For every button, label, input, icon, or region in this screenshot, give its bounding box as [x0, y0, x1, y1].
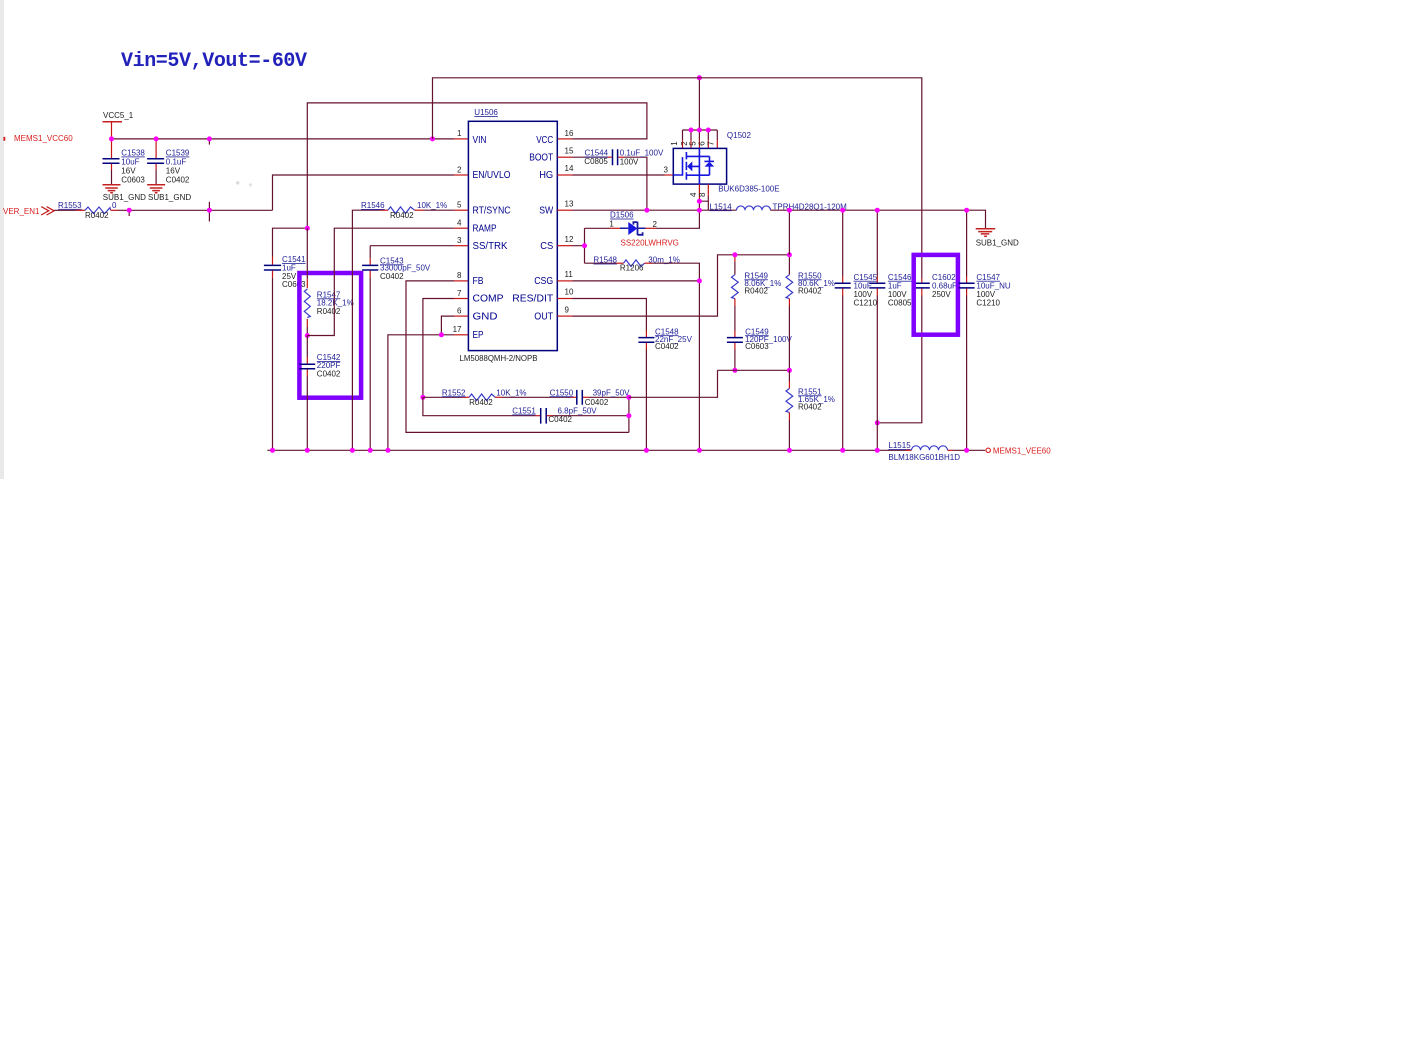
- junction C1545 top: [840, 208, 845, 213]
- pin 13 SW: [539, 199, 574, 216]
- junction SW/Q1502/D1506: [697, 208, 702, 213]
- inductor L1514: [709, 202, 847, 211]
- resistor R1549: [732, 255, 782, 331]
- pin 7 COMP: [457, 289, 503, 305]
- svg-text:R0402: R0402: [798, 287, 822, 296]
- junction bus C1547: [964, 448, 969, 453]
- svg-text:15: 15: [565, 147, 574, 156]
- capacitor C1542: [299, 336, 341, 451]
- power symbol VCC5_1: [103, 111, 134, 139]
- wire FB to divider: [629, 370, 718, 397]
- svg-text:C1210: C1210: [976, 298, 1000, 307]
- junction RAMP node: [305, 333, 310, 338]
- svg-text:VCC: VCC: [536, 134, 553, 146]
- svg-text:1: 1: [670, 141, 679, 146]
- wire HG pin14 to gate: [557, 166, 673, 176]
- pin 2 EN/UVLO: [457, 165, 510, 181]
- svg-text:MEMS1_VEE60: MEMS1_VEE60: [993, 447, 1051, 456]
- svg-text:R1548: R1548: [593, 256, 617, 265]
- op-amp U1506 LM5088 controller body: [460, 108, 558, 363]
- pin 15 BOOT: [529, 147, 574, 164]
- svg-text:13: 13: [565, 199, 574, 208]
- wire C1541 branch: [273, 228, 308, 256]
- svg-text:16V: 16V: [166, 167, 181, 176]
- capacitor C1543: [362, 246, 468, 451]
- svg-text:C0603: C0603: [745, 342, 769, 351]
- wire RAMP pin4: [307, 228, 468, 335]
- junction bus CSG: [697, 448, 702, 453]
- svg-text:8: 8: [698, 192, 707, 197]
- svg-text:10: 10: [565, 288, 574, 297]
- svg-text:EP: EP: [473, 329, 484, 341]
- junction C1546 tap: [875, 420, 880, 425]
- svg-text:0.1uF: 0.1uF: [166, 158, 187, 167]
- junction bus R1551: [787, 448, 792, 453]
- diode D1506: [585, 210, 700, 247]
- left window edge strip: [0, 0, 4, 479]
- junction VER_EN1 tick: [207, 208, 212, 213]
- wire EP pin17: [388, 335, 469, 451]
- wire stub tick on VIN bus: [208, 139, 210, 145]
- resistor R1551: [786, 370, 835, 450]
- svg-text:R1546: R1546: [361, 201, 385, 210]
- wire CSG pin11: [557, 280, 699, 282]
- svg-text:1: 1: [609, 220, 614, 229]
- pin 17 EP: [453, 325, 484, 341]
- junction bus C1548: [644, 448, 649, 453]
- capacitor C1547: [959, 210, 1011, 450]
- junction VIN bus tick: [207, 136, 212, 141]
- pin 3 SS/TRK: [457, 236, 507, 252]
- pin 9 OUT: [534, 305, 569, 322]
- svg-text:SUB1_GND: SUB1_GND: [103, 193, 146, 202]
- capacitor C1539: [147, 139, 190, 185]
- wire SW rail: [557, 209, 736, 211]
- svg-text:30m_1%: 30m_1%: [648, 256, 680, 265]
- junction Q1502 drain top: [697, 75, 702, 80]
- svg-text:RES/DIT: RES/DIT: [512, 293, 554, 305]
- svg-text:C0603: C0603: [282, 280, 306, 289]
- junction bus C1543: [368, 448, 373, 453]
- junction C1546 top: [875, 208, 880, 213]
- capacitor C1548: [557, 299, 692, 451]
- svg-text:CSG: CSG: [534, 275, 553, 287]
- off-page connector MEMS1_VEE60: [986, 447, 1051, 456]
- junction drain bracket pins: [689, 128, 694, 133]
- junction C1549 bottom: [732, 368, 737, 373]
- svg-text:OUT: OUT: [534, 310, 553, 322]
- svg-text:C0805: C0805: [888, 298, 912, 307]
- junction FB node upper: [626, 395, 631, 400]
- svg-text:C0402: C0402: [655, 342, 679, 351]
- capacitor C1551: [423, 397, 629, 432]
- svg-text:SW: SW: [539, 204, 553, 216]
- transistor Q1502: [670, 78, 780, 210]
- svg-text:6: 6: [698, 141, 707, 146]
- pin 1 VIN: [457, 129, 486, 146]
- junction C1547 top: [964, 208, 969, 213]
- svg-text:R1206: R1206: [620, 263, 644, 272]
- resistor R1548: [585, 256, 700, 451]
- svg-text:4: 4: [457, 219, 462, 228]
- wire VER_EN1 net: [118, 209, 273, 211]
- svg-text:BUK6D385-100E: BUK6D385-100E: [718, 184, 779, 193]
- pin 14 HG: [539, 164, 574, 181]
- svg-text:SUB1_GND: SUB1_GND: [148, 193, 191, 202]
- svg-text:4: 4: [689, 192, 698, 197]
- svg-text:BOOT: BOOT: [529, 152, 553, 164]
- junction bus C1546: [875, 448, 880, 453]
- svg-text:LM5088QMH-2/NOPB: LM5088QMH-2/NOPB: [460, 354, 538, 363]
- svg-text:SUB1_GND: SUB1_GND: [976, 238, 1019, 247]
- capacitor C1541: [264, 255, 306, 450]
- junction source pins: [697, 199, 702, 204]
- svg-text:R0402: R0402: [85, 211, 109, 220]
- svg-text:100V: 100V: [620, 158, 639, 167]
- svg-text:EN/UVLO: EN/UVLO: [473, 169, 511, 181]
- svg-text:R0402: R0402: [469, 398, 493, 407]
- svg-text:L1515: L1515: [888, 441, 911, 450]
- highlight box C1602: [914, 255, 958, 335]
- junction VIN bus at C1539: [154, 136, 159, 141]
- wire GND pin6 riser: [441, 316, 468, 335]
- svg-text:VCC5_1: VCC5_1: [103, 111, 134, 120]
- svg-text:16V: 16V: [121, 167, 136, 176]
- off-page connector VER_EN1: [3, 207, 54, 217]
- svg-text:BLM18KG601BH1D: BLM18KG601BH1D: [888, 453, 960, 462]
- svg-text:2: 2: [653, 220, 658, 229]
- svg-text:3: 3: [457, 236, 462, 245]
- resistor R1552: [423, 388, 527, 407]
- svg-text:10uF: 10uF: [121, 158, 139, 167]
- svg-text:11: 11: [565, 270, 574, 279]
- svg-text:Q1502: Q1502: [727, 131, 752, 140]
- svg-text:HG: HG: [539, 169, 553, 181]
- smudge artifacts: [236, 181, 239, 184]
- junction FB node lower: [626, 413, 631, 418]
- capacitor C1544 (BOOT): [557, 149, 664, 211]
- svg-text:C1539: C1539: [166, 149, 190, 158]
- resistor R1550: [786, 255, 835, 370]
- pin 6 GND: [457, 306, 498, 322]
- off-page connector MEMS1_VCC60: [3, 134, 73, 143]
- wire COMP pin7 riser: [423, 299, 469, 398]
- svg-text:R0402: R0402: [798, 403, 822, 412]
- pin 12 CS: [540, 235, 574, 252]
- svg-text:SS/TRK: SS/TRK: [473, 240, 508, 252]
- svg-text:C1550: C1550: [550, 388, 574, 397]
- junction CSG: [697, 278, 702, 283]
- ground SUB1_GND right: [976, 229, 1019, 248]
- junction VIN bus at VCC5_1: [109, 136, 114, 141]
- svg-text:Vin=5V,Vout=-60V: Vin=5V,Vout=-60V: [121, 50, 307, 73]
- wire crossing tick: [208, 202, 210, 222]
- svg-text:10K_1%: 10K_1%: [417, 201, 447, 210]
- wire VCC top loop: [307, 103, 647, 228]
- wire GND rail after L1514: [771, 210, 986, 228]
- capacitor C1545: [835, 210, 878, 450]
- svg-text:U1506: U1506: [474, 108, 498, 117]
- wire divider mid rail: [718, 369, 790, 371]
- junction bus C1545: [840, 448, 845, 453]
- wire OUT pin9 to divider top: [557, 255, 789, 316]
- wire CS pin12: [557, 228, 584, 263]
- svg-text:C0402: C0402: [166, 176, 190, 185]
- svg-text:5: 5: [457, 201, 462, 210]
- svg-text:C0402: C0402: [380, 272, 404, 281]
- junction bus EP: [385, 448, 390, 453]
- wire VIN bus VCC5_1: [112, 138, 455, 140]
- svg-text:RAMP: RAMP: [473, 222, 497, 234]
- wire FB pin8 riser: [406, 281, 629, 433]
- pin 16 VCC: [536, 129, 574, 146]
- pin 10 RES/DIT: [512, 288, 574, 305]
- svg-text:VIN: VIN: [473, 134, 487, 146]
- svg-text:0.1uF_100V: 0.1uF_100V: [620, 149, 664, 158]
- junction R1549 top: [732, 252, 737, 257]
- pin 11 CSG: [534, 270, 573, 287]
- svg-text:16: 16: [565, 129, 574, 138]
- svg-text:GND: GND: [473, 310, 498, 322]
- svg-text:9: 9: [565, 305, 570, 314]
- junction bus C1542: [305, 448, 310, 453]
- svg-text:R0402: R0402: [390, 211, 414, 220]
- junction bus R1546: [350, 448, 355, 453]
- svg-text:R0402: R0402: [317, 307, 341, 316]
- svg-text:3: 3: [664, 166, 669, 175]
- wire R1550 top to GND rail: [788, 210, 790, 255]
- capacitor C1546: [869, 210, 912, 450]
- svg-text:5: 5: [689, 141, 698, 146]
- junction VIN bus to top loop: [430, 136, 435, 141]
- capacitor C1549: [727, 327, 793, 370]
- inductor L1515: [888, 441, 985, 462]
- svg-text:C1551: C1551: [512, 407, 536, 416]
- junction COMP node: [420, 395, 425, 400]
- junction CS node: [582, 243, 587, 248]
- highlight box R1547/C1542: [299, 273, 361, 398]
- wire stub tick below junction: [128, 210, 130, 216]
- ground SUB1_GND (C1538): [103, 185, 147, 202]
- svg-text:14: 14: [565, 164, 574, 173]
- junction SW/C1544: [644, 208, 649, 213]
- ground SUB1_GND (C1539): [147, 185, 191, 202]
- svg-text:0: 0: [112, 201, 117, 210]
- svg-text:17: 17: [453, 325, 462, 334]
- svg-text:D1506: D1506: [610, 211, 634, 220]
- svg-text:FB: FB: [473, 275, 484, 287]
- svg-text:39pF_50V: 39pF_50V: [593, 388, 631, 397]
- svg-text:10K_1%: 10K_1%: [496, 388, 526, 397]
- svg-text:SS220LWHRVG: SS220LWHRVG: [621, 238, 679, 247]
- svg-text:R1552: R1552: [442, 388, 466, 397]
- svg-text:RT/SYNC: RT/SYNC: [473, 204, 511, 216]
- svg-text:C0402: C0402: [548, 415, 572, 424]
- junction divider top right: [787, 252, 792, 257]
- capacitor C1602: [877, 273, 957, 423]
- pin 4 RAMP: [457, 219, 496, 235]
- svg-text:VER_EN1: VER_EN1: [3, 207, 40, 216]
- pin 8 FB: [457, 271, 483, 287]
- capacitor C1550: [502, 388, 630, 407]
- svg-text:1: 1: [457, 129, 462, 138]
- svg-text:COMP: COMP: [473, 293, 504, 305]
- wire pin1 stub: [454, 138, 468, 140]
- svg-text:2: 2: [457, 165, 462, 174]
- svg-text:R0402: R0402: [744, 287, 768, 296]
- junction VER_EN1: [127, 208, 132, 213]
- wire top VIN loop: [433, 78, 922, 278]
- svg-text:8: 8: [457, 271, 462, 280]
- resistor R1546: [352, 201, 468, 450]
- svg-text:7: 7: [707, 141, 716, 146]
- junction bus C1541: [270, 448, 275, 453]
- wire pin16 stub: [557, 138, 572, 140]
- resistor R1547: [304, 228, 353, 335]
- svg-text:12: 12: [565, 235, 574, 244]
- svg-text:C1538: C1538: [121, 149, 145, 158]
- wire EN/UVLO riser: [273, 175, 455, 210]
- svg-text:L1514: L1514: [709, 202, 732, 211]
- wire pin2 stub: [454, 174, 468, 176]
- resistor R1553: [54, 201, 118, 220]
- capacitor C1538: [103, 139, 146, 185]
- pin 5 RT/SYNC: [457, 201, 511, 217]
- svg-text:C0805: C0805: [584, 157, 608, 166]
- svg-text:C0603: C0603: [121, 176, 145, 185]
- svg-text:C0402: C0402: [317, 369, 341, 378]
- svg-text:CS: CS: [540, 240, 553, 252]
- svg-text:C1210: C1210: [854, 298, 878, 307]
- svg-text:250V: 250V: [932, 290, 951, 299]
- junction EP/GND: [439, 332, 444, 337]
- junction mid rail right: [787, 368, 792, 373]
- svg-text:6: 6: [457, 306, 462, 315]
- junction VCC node: [305, 226, 310, 231]
- svg-text:MEMS1_VCC60: MEMS1_VCC60: [14, 134, 73, 143]
- wire VEE bus: [267, 449, 905, 451]
- junction GND rail R1550: [787, 208, 792, 213]
- svg-text:R1553: R1553: [58, 201, 82, 210]
- svg-text:7: 7: [457, 289, 462, 298]
